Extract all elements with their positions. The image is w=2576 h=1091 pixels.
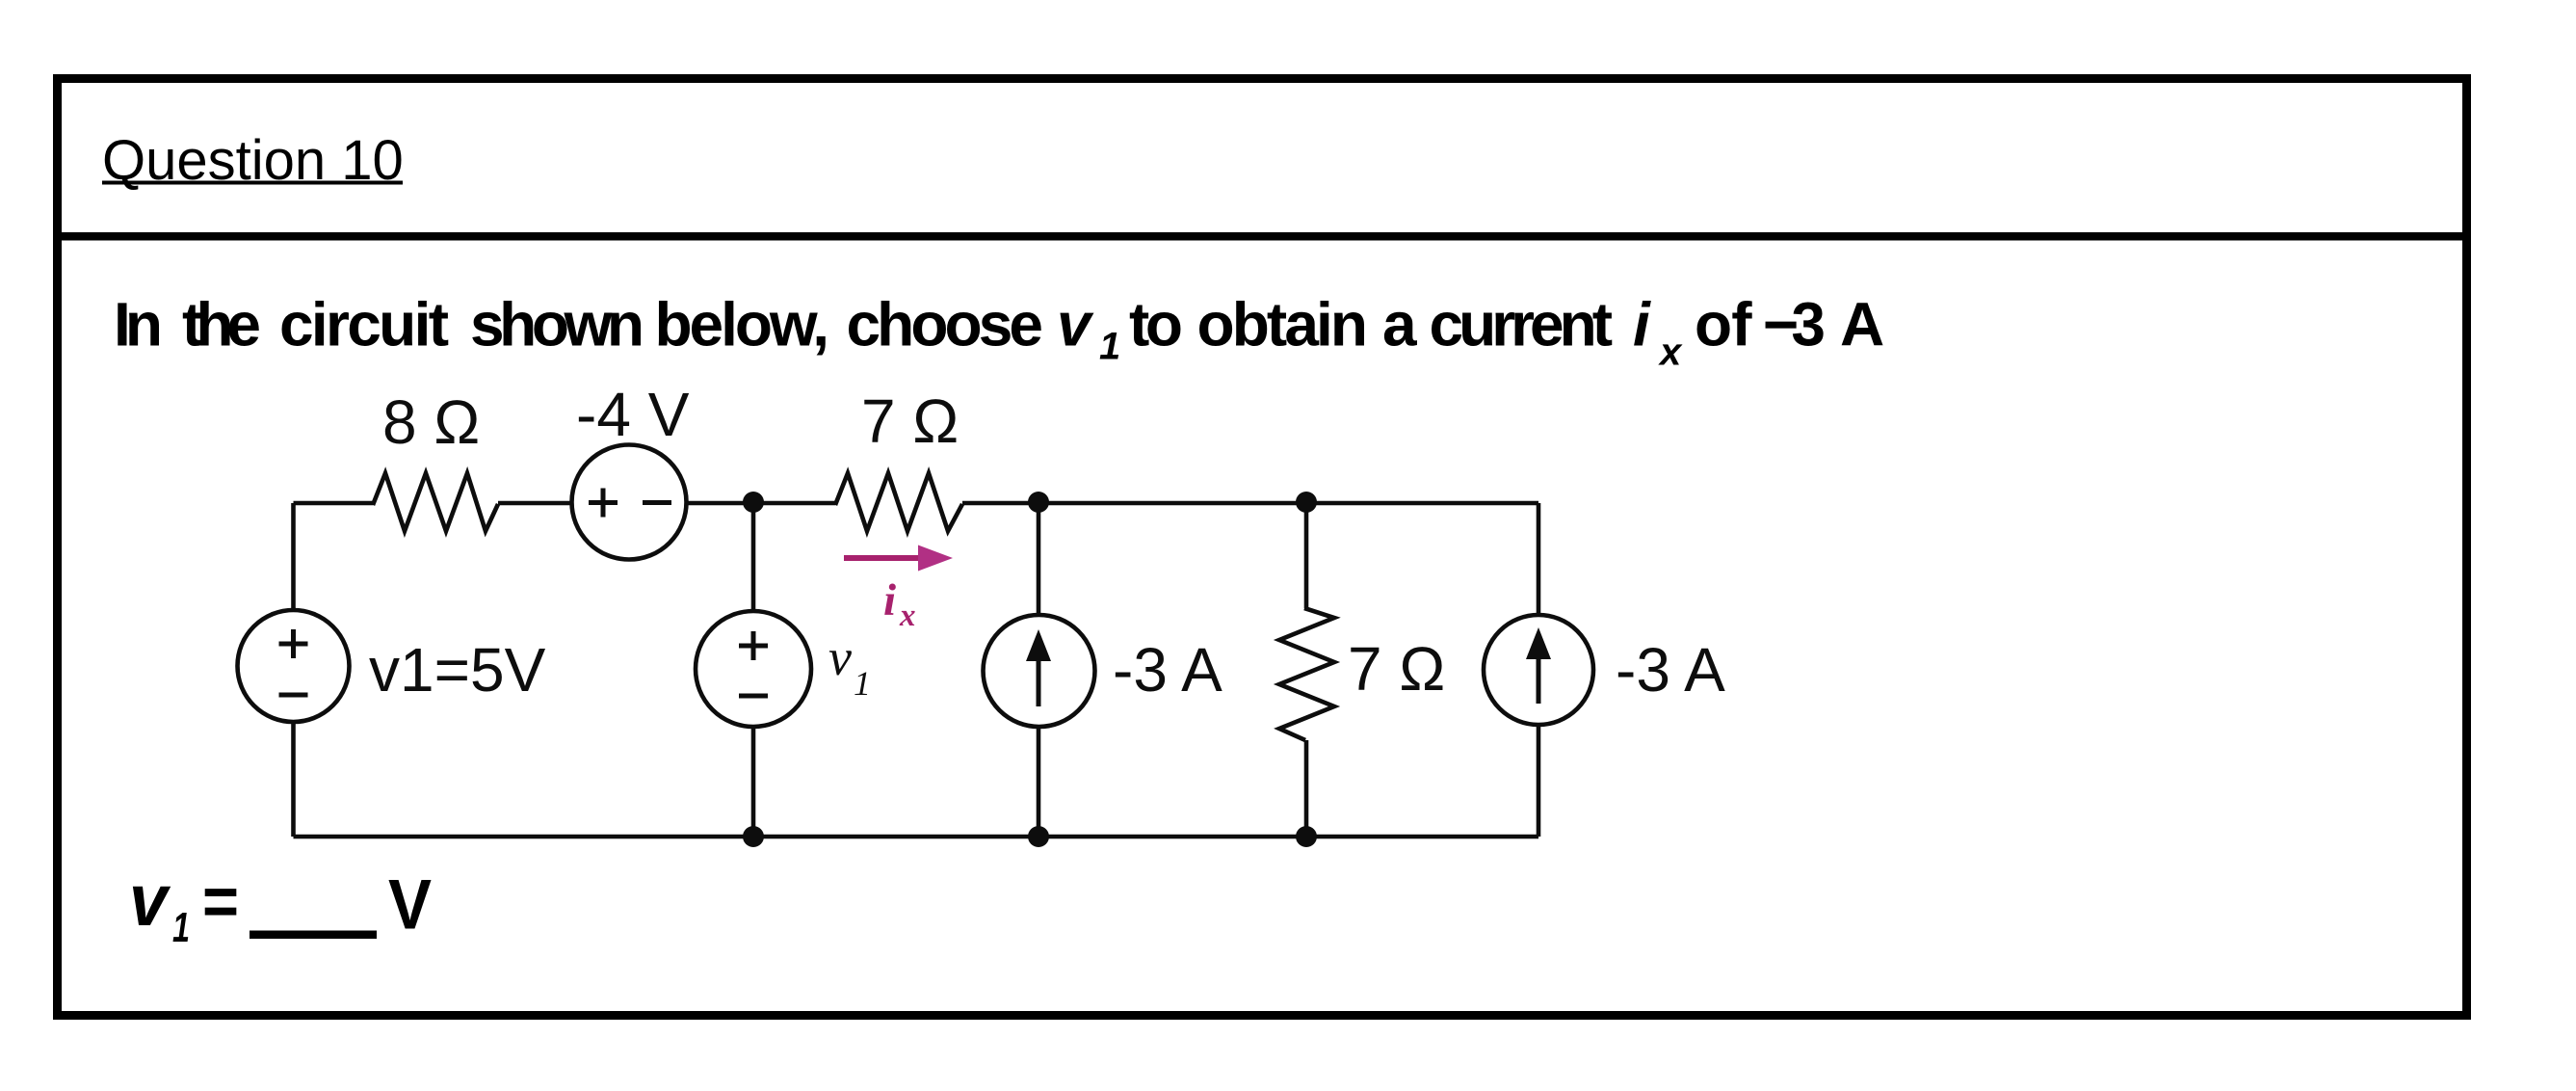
- svg-text:x: x: [899, 599, 916, 633]
- I1 arrow head: [1026, 629, 1051, 661]
- wire: v1 branch lower: [751, 727, 756, 838]
- svg-text:i: i: [1633, 290, 1651, 359]
- svg-text:choose: choose: [847, 290, 1044, 359]
- resistor R2 7ohm zigzag: [835, 473, 962, 531]
- node C junction dot: [1296, 492, 1317, 513]
- svg-text:A: A: [1840, 290, 1884, 359]
- resistor R1 8ohm zigzag: [373, 473, 498, 531]
- svg-text:a: a: [1382, 290, 1417, 359]
- svg-text:In: In: [114, 290, 163, 359]
- wire: R3 branch upper: [1304, 503, 1309, 608]
- voltage source v1 circle: [696, 611, 811, 727]
- node E junction dot (bottom I1): [1028, 826, 1049, 847]
- I2 arrow shaft: [1537, 646, 1541, 704]
- svg-text:v1=5V: v1=5V: [369, 635, 546, 705]
- V1 plus sign: [279, 642, 308, 647]
- node F junction dot (bottom R3): [1296, 826, 1317, 847]
- svg-text:1: 1: [1099, 326, 1120, 368]
- voltage source -4V circle: [572, 445, 687, 560]
- wire: right rail upper: [1537, 503, 1541, 616]
- voltage source V1 circle: [238, 610, 350, 722]
- svg-text:current: current: [1430, 290, 1614, 359]
- node B junction dot: [1028, 492, 1049, 513]
- current ix arrow (magenta): [844, 555, 925, 561]
- svg-text:to: to: [1129, 290, 1183, 359]
- svg-text:below,: below,: [655, 290, 830, 359]
- question body text: [114, 290, 1884, 374]
- svg-text:obtain: obtain: [1197, 290, 1369, 359]
- -4V source plus sign: [589, 500, 618, 505]
- v1 source plus sign: [739, 644, 768, 649]
- wire: current source I1 branch lower: [1037, 727, 1041, 838]
- wire: node B to right rail: [962, 501, 1538, 506]
- svg-text:1: 1: [172, 904, 190, 951]
- svg-text:-3 A: -3 A: [1616, 635, 1725, 705]
- resistor R3 7ohm vertical zigzag: [1279, 608, 1334, 740]
- svg-text:-3 A: -3 A: [1113, 635, 1222, 705]
- title underline: [102, 181, 403, 185]
- svg-text:the: the: [182, 290, 261, 359]
- wire: current source I1 branch upper: [1037, 503, 1041, 616]
- wire: bottom rail: [294, 835, 1539, 839]
- wire: left rail upper: [291, 503, 296, 611]
- svg-text:V: V: [388, 866, 432, 945]
- node A junction dot: [743, 492, 764, 513]
- svg-text:1: 1: [854, 664, 871, 703]
- wire: -4V source to node A: [687, 501, 836, 506]
- I1 arrow shaft: [1037, 648, 1041, 706]
- wire: R3 branch lower: [1304, 740, 1309, 837]
- -4V source minus sign: [643, 500, 671, 505]
- svg-text:=: =: [202, 864, 239, 941]
- V1 minus sign: [279, 693, 308, 698]
- svg-text:x: x: [1658, 332, 1683, 374]
- svg-text:circuit: circuit: [279, 290, 449, 359]
- v1 source minus sign: [739, 694, 768, 699]
- svg-text:7 Ω: 7 Ω: [1348, 634, 1445, 704]
- svg-text:v: v: [129, 860, 171, 942]
- svg-text:-4 V: -4 V: [576, 380, 690, 449]
- title separator line: [62, 232, 2463, 241]
- svg-text:of: of: [1695, 290, 1752, 359]
- svg-text:8 Ω: 8 Ω: [382, 387, 480, 457]
- wire: v1 branch upper: [751, 503, 756, 612]
- svg-text:shown: shown: [470, 290, 644, 359]
- wire: left rail lower: [291, 722, 296, 838]
- wire: right rail lower: [1537, 725, 1541, 838]
- current source I2 -3A circle: [1484, 615, 1593, 725]
- wire: top left segment: [294, 501, 374, 506]
- wire: between R1 and -4V source: [498, 501, 572, 506]
- svg-text:v: v: [1057, 290, 1094, 359]
- I2 arrow head: [1526, 627, 1551, 659]
- svg-text:−3: −3: [1763, 290, 1826, 359]
- svg-text:i: i: [883, 575, 896, 625]
- current source I1 -3A circle: [984, 615, 1095, 727]
- svg-text:v: v: [828, 628, 852, 686]
- answer blank line: [250, 931, 377, 940]
- node D junction dot (bottom v1): [743, 826, 764, 847]
- svg-text:7 Ω: 7 Ω: [861, 386, 959, 456]
